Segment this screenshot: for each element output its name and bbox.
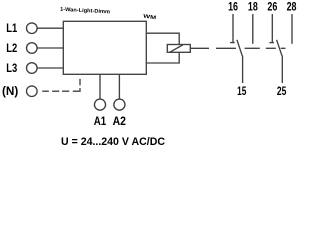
wire A1 lead	[99, 74, 101, 99]
svg-text:28: 28	[287, 1, 297, 13]
common line 25	[281, 56, 283, 83]
svg-text:U = 24...240 V AC/DC: U = 24...240 V AC/DC	[61, 136, 165, 148]
contact lever 15	[237, 40, 243, 56]
output coil K (rect with diagonal)	[167, 45, 190, 53]
mechanical link dashed	[216, 47, 286, 49]
wire coil output solid	[190, 47, 209, 49]
terminal line 16	[232, 14, 234, 42]
svg-text:25: 25	[277, 86, 287, 98]
svg-text:L3: L3	[6, 63, 17, 75]
wire box to coil bottom	[146, 52, 179, 63]
contact lever 25	[277, 40, 283, 56]
terminal line 28	[291, 14, 293, 44]
terminal line 18	[252, 14, 254, 44]
terminal line 26	[271, 14, 273, 42]
coil diagonal	[170, 45, 183, 52]
terminal circle L1	[27, 23, 38, 34]
NC contact foot 26	[269, 42, 274, 44]
common line 15	[242, 56, 244, 83]
svg-text:A2: A2	[113, 116, 126, 128]
terminal circle N	[27, 86, 38, 97]
svg-text:A1: A1	[94, 116, 107, 128]
wire L3	[37, 67, 63, 69]
NC contact foot 16	[230, 42, 235, 44]
svg-text:16: 16	[228, 1, 238, 13]
svg-text:(N): (N)	[2, 86, 18, 98]
svg-text:L1: L1	[6, 23, 17, 35]
svg-text:L2: L2	[6, 43, 17, 55]
wire N dashed vertical	[79, 79, 81, 85]
svg-text:26: 26	[267, 1, 277, 13]
watermark	[60, 7, 157, 21]
wire A2 lead	[118, 74, 120, 99]
wire N dashed horizontal	[42, 88, 80, 91]
terminal circle L3	[27, 63, 38, 74]
terminal circle A2	[114, 99, 125, 110]
terminal circle A1	[94, 99, 105, 110]
svg-text:15: 15	[237, 86, 247, 98]
terminal circle L2	[27, 43, 38, 54]
wire L2	[37, 47, 63, 49]
main box device body	[63, 21, 146, 74]
wire box to coil top	[146, 33, 179, 44]
wire L1	[37, 27, 63, 29]
svg-text:18: 18	[248, 1, 258, 13]
